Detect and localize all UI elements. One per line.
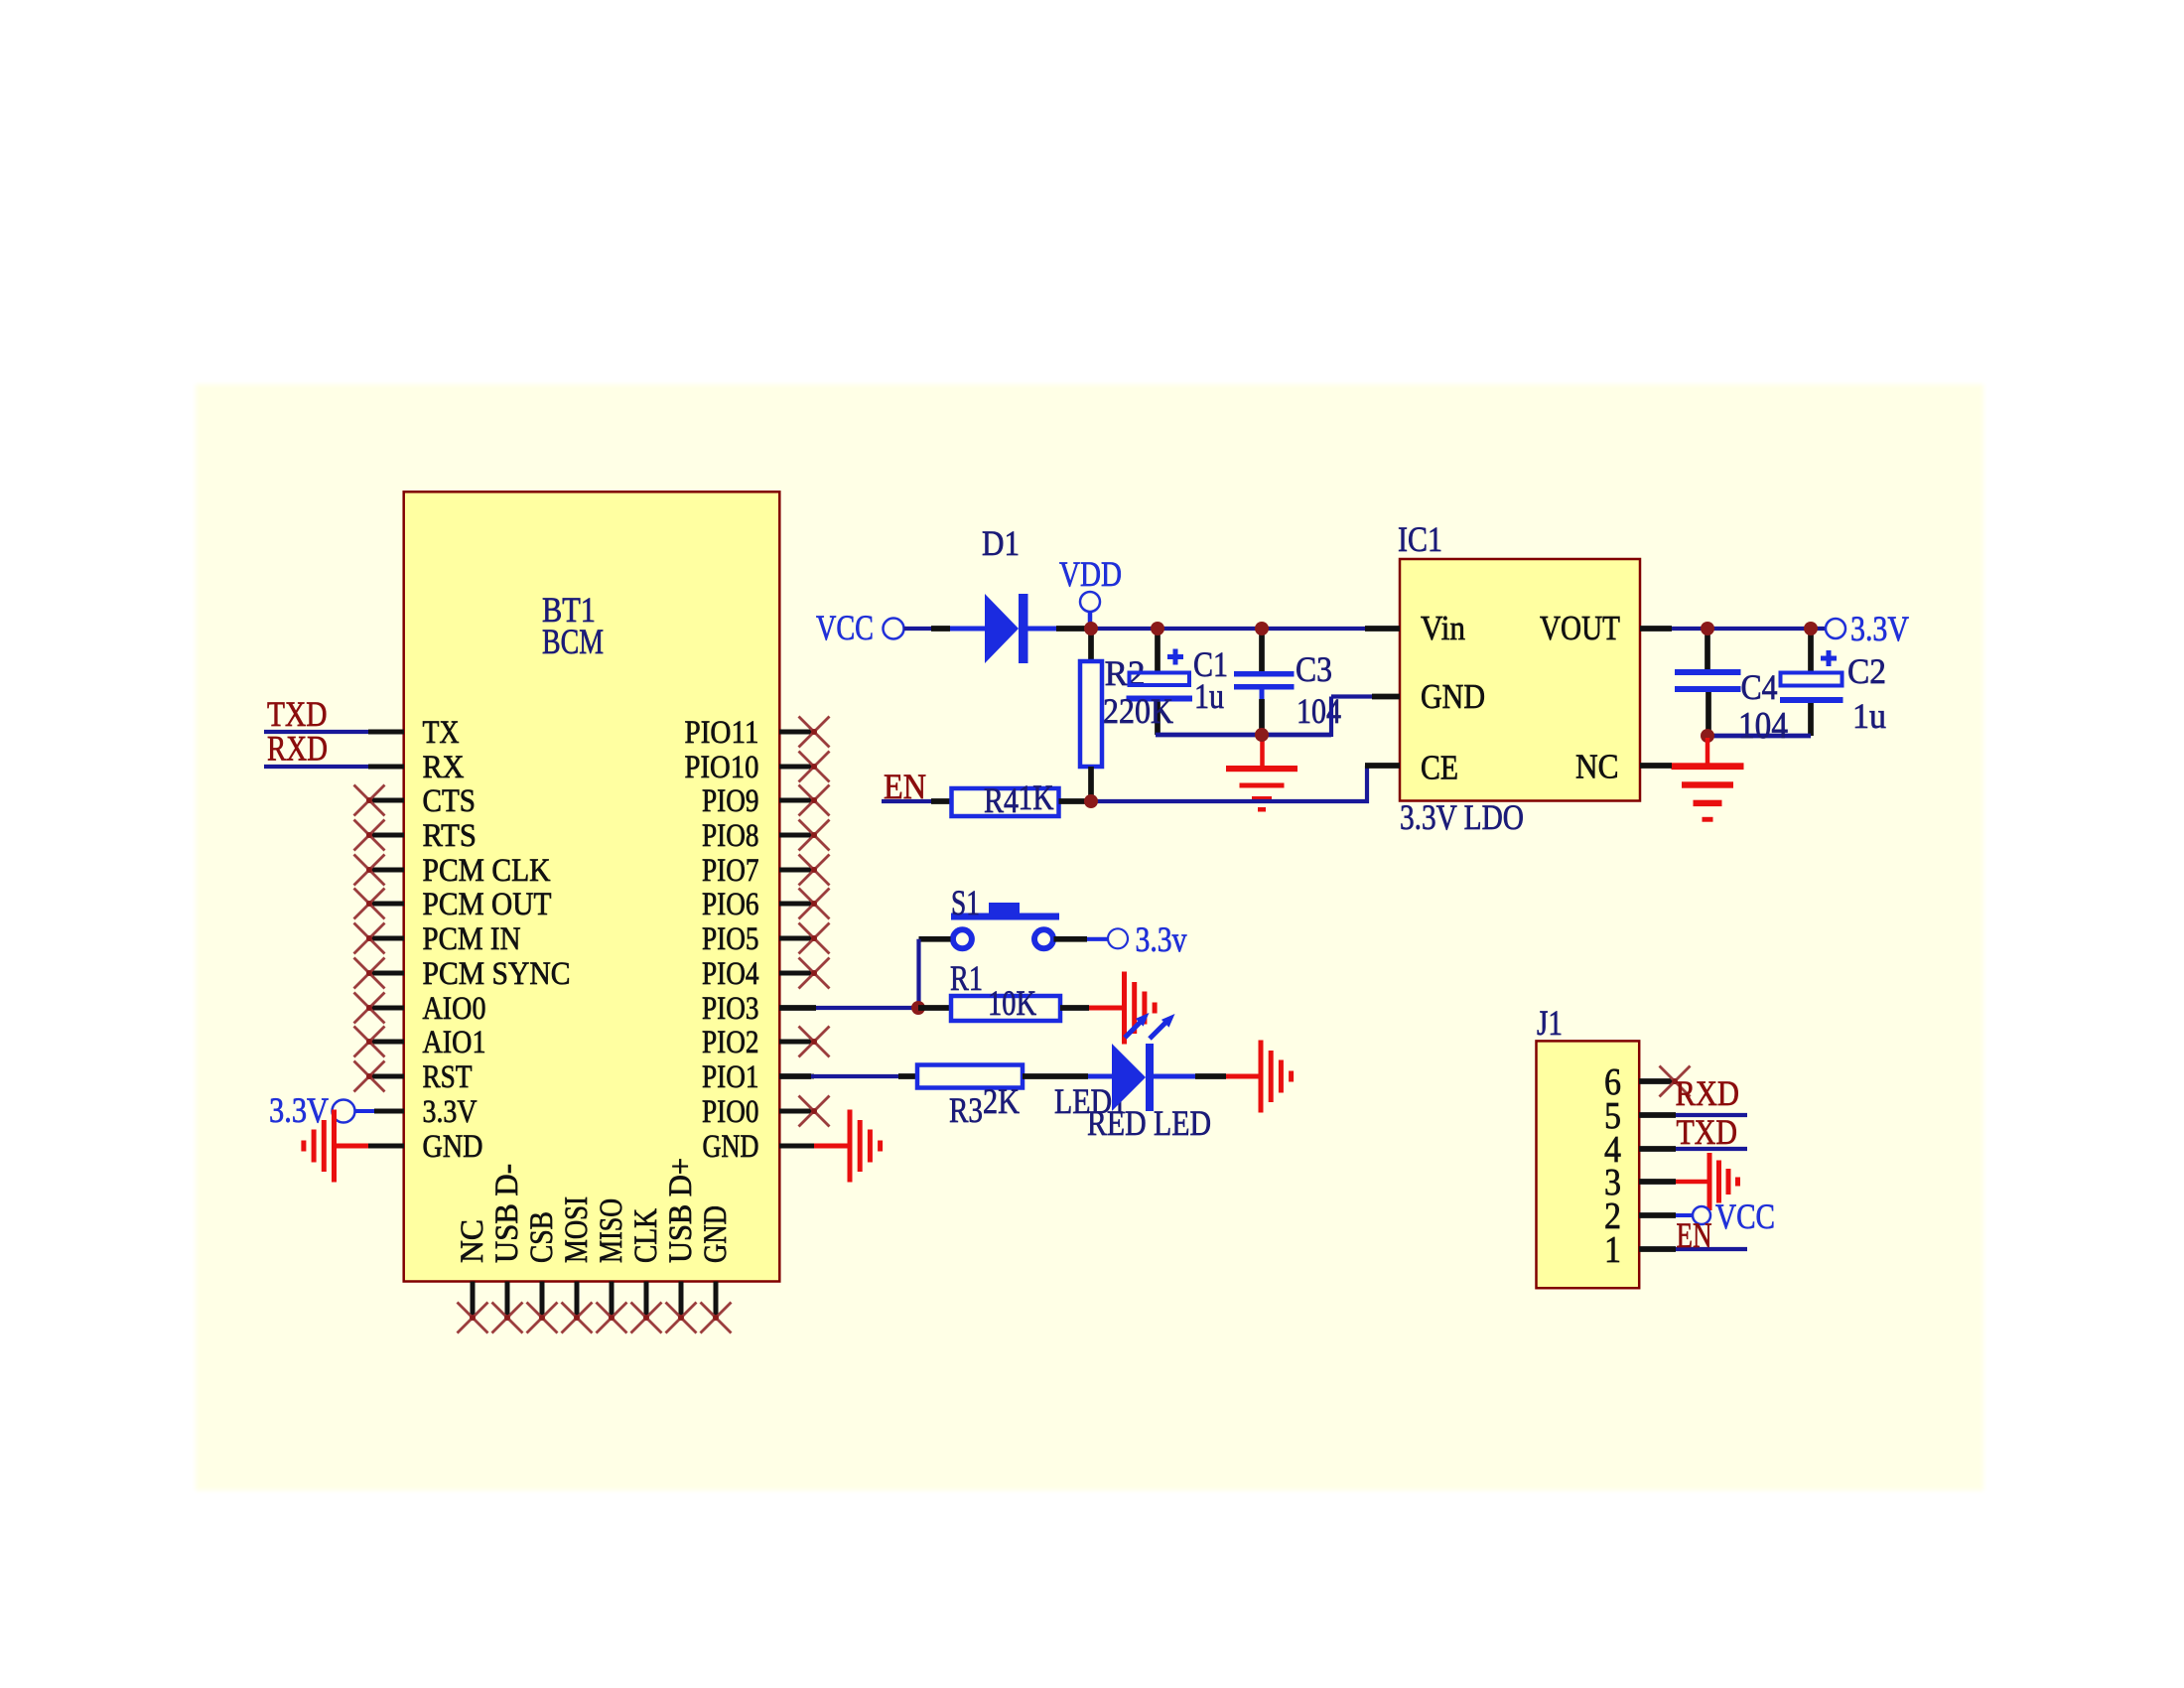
svg-text:RX: RX: [423, 750, 465, 785]
svg-text:MISO: MISO: [594, 1198, 629, 1263]
svg-text:PCM OUT: PCM OUT: [423, 887, 552, 922]
svg-text:AIO0: AIO0: [423, 991, 486, 1027]
svg-text:RTS: RTS: [423, 818, 478, 854]
svg-text:3.3V LDO: 3.3V LDO: [1400, 797, 1524, 837]
svg-text:1: 1: [1604, 1229, 1621, 1271]
svg-text:PIO3: PIO3: [702, 991, 759, 1027]
svg-text:GND: GND: [698, 1205, 734, 1263]
svg-text:VCC: VCC: [1715, 1196, 1775, 1236]
svg-text:104: 104: [1738, 705, 1788, 747]
svg-text:CE: CE: [1421, 749, 1458, 787]
svg-text:PCM CLK: PCM CLK: [423, 853, 551, 889]
svg-text:PCM IN: PCM IN: [423, 921, 521, 957]
svg-text:RXD: RXD: [267, 729, 328, 769]
svg-text:1K: 1K: [1019, 777, 1054, 817]
svg-text:10K: 10K: [988, 983, 1036, 1023]
svg-text:2K: 2K: [983, 1081, 1020, 1121]
svg-text:TX: TX: [423, 715, 460, 751]
svg-text:R1: R1: [950, 958, 983, 998]
svg-text:EN: EN: [884, 767, 926, 806]
svg-text:3.3V: 3.3V: [423, 1094, 478, 1130]
svg-text:PIO7: PIO7: [702, 853, 759, 889]
svg-text:3.3V: 3.3V: [269, 1090, 329, 1130]
svg-text:NC: NC: [1575, 748, 1619, 786]
svg-text:VDD: VDD: [1059, 554, 1122, 594]
svg-text:GND: GND: [423, 1129, 483, 1165]
svg-text:PIO10: PIO10: [685, 750, 759, 785]
svg-text:J1: J1: [1537, 1003, 1563, 1043]
svg-text:PIO2: PIO2: [702, 1025, 759, 1060]
svg-text:VOUT: VOUT: [1540, 609, 1620, 647]
svg-text:IC1: IC1: [1398, 519, 1442, 559]
svg-text:TXD: TXD: [1677, 1112, 1738, 1152]
svg-text:3.3v: 3.3v: [1136, 919, 1187, 959]
svg-text:PIO0: PIO0: [702, 1094, 759, 1130]
svg-text:GND: GND: [1421, 677, 1485, 716]
svg-text:RXD: RXD: [1676, 1073, 1740, 1113]
svg-text:Vin: Vin: [1421, 609, 1465, 647]
svg-text:R4: R4: [984, 780, 1019, 820]
svg-text:VCC: VCC: [816, 608, 874, 647]
svg-text:PIO1: PIO1: [702, 1059, 759, 1095]
svg-text:PIO9: PIO9: [702, 783, 759, 819]
svg-text:USB D+: USB D+: [663, 1158, 699, 1263]
svg-text:C2: C2: [1847, 651, 1886, 691]
svg-text:1u: 1u: [1194, 676, 1224, 716]
svg-text:S1: S1: [951, 883, 980, 922]
svg-text:PIO8: PIO8: [702, 818, 759, 854]
svg-text:1u: 1u: [1852, 696, 1886, 736]
svg-text:D1: D1: [982, 523, 1020, 563]
svg-text:PIO11: PIO11: [685, 715, 759, 751]
svg-text:USB D-: USB D-: [489, 1164, 525, 1263]
svg-text:PIO4: PIO4: [702, 956, 759, 992]
svg-text:C3: C3: [1296, 649, 1332, 689]
svg-text:RST: RST: [423, 1059, 473, 1095]
svg-text:PIO5: PIO5: [702, 921, 759, 957]
svg-text:PCM SYNC: PCM SYNC: [423, 956, 571, 992]
svg-text:NC: NC: [455, 1219, 490, 1263]
svg-text:BCM: BCM: [542, 622, 604, 661]
svg-text:3.3V: 3.3V: [1850, 609, 1909, 648]
svg-text:CSB: CSB: [524, 1211, 560, 1263]
svg-text:220K: 220K: [1103, 691, 1173, 731]
svg-text:PIO6: PIO6: [702, 887, 759, 922]
svg-text:RED LED: RED LED: [1087, 1103, 1211, 1143]
svg-text:AIO1: AIO1: [423, 1025, 486, 1060]
svg-text:EN: EN: [1677, 1215, 1712, 1255]
svg-text:C4: C4: [1741, 667, 1778, 707]
svg-text:R3: R3: [949, 1090, 983, 1130]
svg-text:GND: GND: [703, 1129, 759, 1165]
svg-text:CLK: CLK: [628, 1208, 664, 1263]
svg-text:MOSI: MOSI: [559, 1196, 595, 1263]
svg-text:CTS: CTS: [423, 783, 477, 819]
